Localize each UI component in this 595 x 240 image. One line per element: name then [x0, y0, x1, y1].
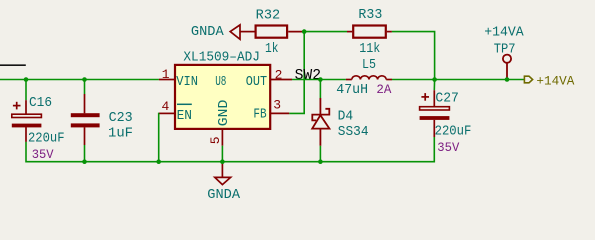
- wire VIN rail: [0, 79, 159, 81]
- wire C23 top: [84, 80, 86, 95]
- svg-text:+14VA: +14VA: [484, 25, 524, 40]
- wire C16 top: [25, 80, 27, 101]
- svg-text:XL1509–ADJ: XL1509–ADJ: [183, 51, 260, 66]
- svg-text:TP7: TP7: [494, 42, 516, 57]
- U8 pin 1: [159, 79, 174, 81]
- svg-text:35V: 35V: [32, 148, 54, 162]
- wire L5 to output node: [392, 79, 435, 81]
- wire output node to C27: [433, 80, 435, 91]
- svg-text:220uF: 220uF: [435, 124, 472, 139]
- svg-text:11k: 11k: [359, 42, 380, 57]
- svg-text:VIN: VIN: [176, 75, 198, 90]
- regulator U8 body: [175, 65, 270, 129]
- U8 pin 3: [271, 112, 290, 114]
- U8 pin 4: [159, 112, 174, 114]
- svg-text:L5: L5: [362, 58, 376, 73]
- U8 pin 5: [221, 129, 223, 145]
- resistor R33: [347, 31, 352, 33]
- svg-text:GNDA: GNDA: [207, 188, 241, 203]
- svg-text:R33: R33: [358, 8, 382, 23]
- capacitor C16: [12, 100, 42, 142]
- svg-text:220uF: 220uF: [28, 131, 65, 146]
- svg-text:3: 3: [273, 98, 281, 113]
- svg-text:1uF: 1uF: [108, 127, 133, 142]
- wire ground rail: [26, 137, 434, 162]
- svg-text:1: 1: [162, 67, 170, 82]
- hierarchical label +14VA: [524, 76, 532, 83]
- capacitor C23: [71, 94, 100, 145]
- wire SW2 to D4: [319, 80, 321, 99]
- wire output to hierarchical label: [435, 79, 525, 81]
- inductor L5: [346, 76, 392, 80]
- svg-text:47uH: 47uH: [336, 83, 368, 98]
- svg-text:U8: U8: [215, 75, 226, 90]
- ground GNDA: [215, 162, 231, 185]
- svg-text:C23: C23: [109, 111, 133, 126]
- graphic line (sheet border fragment): [0, 64, 26, 66]
- svg-text:+14VA: +14VA: [536, 75, 574, 89]
- wire EN to ground rail: [158, 113, 160, 161]
- svg-text:35V: 35V: [437, 141, 459, 155]
- wire C23 bottom: [84, 145, 86, 162]
- svg-text:OUT: OUT: [246, 75, 267, 90]
- wire R32 junction to R33: [304, 31, 347, 33]
- power symbol GNDA (arrow, at R32): [230, 25, 254, 39]
- wire D4 to rail: [319, 146, 321, 162]
- svg-text:SS34: SS34: [338, 125, 369, 140]
- svg-text:EN: EN: [177, 109, 192, 124]
- svg-text:R32: R32: [256, 9, 281, 24]
- svg-text:4: 4: [162, 99, 170, 114]
- svg-text:FB: FB: [253, 108, 266, 123]
- svg-text:C16: C16: [29, 96, 52, 111]
- svg-text:SW2: SW2: [295, 67, 322, 84]
- svg-text:2A: 2A: [376, 83, 391, 97]
- diode D4: [312, 98, 329, 146]
- resistor R32: [256, 26, 288, 38]
- svg-text:GNDA: GNDA: [191, 25, 225, 40]
- wire feedback vertical to FB: [289, 32, 304, 114]
- svg-text:D4: D4: [338, 110, 354, 125]
- U8 pin 2: [271, 79, 293, 81]
- svg-text:1k: 1k: [265, 42, 279, 57]
- svg-text:C27: C27: [435, 91, 459, 106]
- wire GND pin to rail: [221, 146, 223, 162]
- svg-text:GND: GND: [217, 100, 232, 127]
- wire OUT to L5: [292, 79, 346, 81]
- svg-text:2: 2: [275, 67, 283, 82]
- test point TP7: [503, 55, 511, 80]
- svg-text:5: 5: [208, 136, 223, 144]
- wire R33 to output node: [392, 32, 435, 80]
- capacitor C27: [420, 90, 450, 137]
